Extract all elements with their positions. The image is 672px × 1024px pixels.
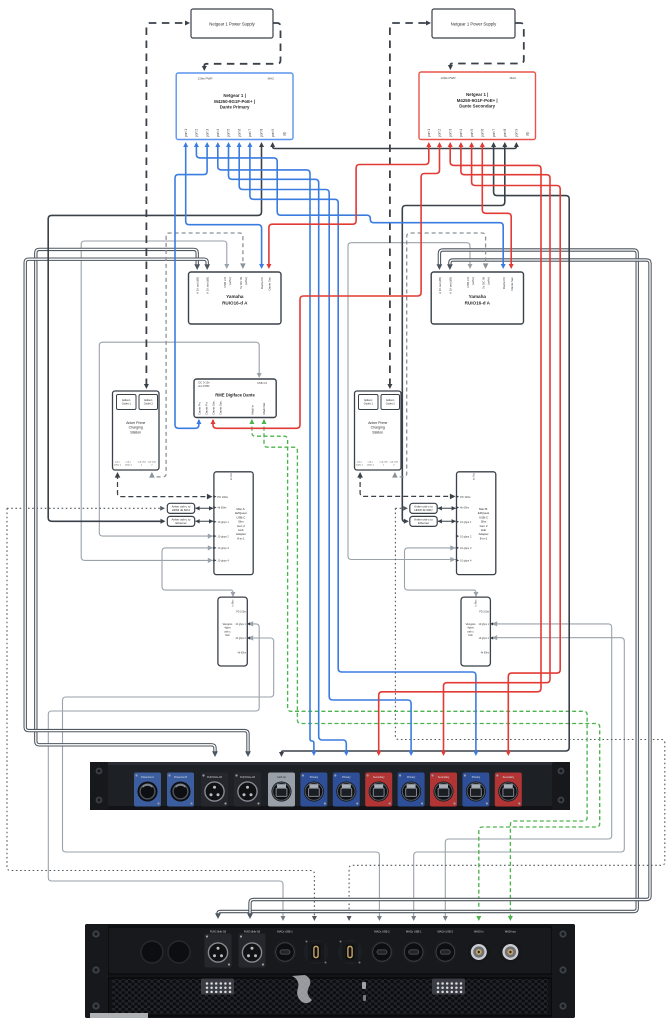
svg-text:RUIO16de-1B: RUIO16de-1B — [207, 776, 222, 779]
svg-text:Dante Sec.: Dante Sec. — [211, 400, 215, 414]
link ETH-R adapter to EZQuest-R 10gbps1 — [438, 520, 456, 522]
connector: patch XLR RUIO16de-1B #1 — [201, 773, 228, 807]
svg-text:M4250-9G1F-PoE+ |: M4250-9G1F-PoE+ | — [457, 98, 498, 103]
link ETH-L adapter to EZQuest 10gbps1 — [196, 520, 214, 522]
connector: patch Secondary #1 — [365, 773, 392, 807]
svg-text:RME Digiface Dante: RME Digiface Dante — [215, 393, 255, 398]
wire dante-pri: port3 to RME Dante Pri — [175, 144, 207, 428]
svg-text:MACs USB-2: MACs USB-2 — [374, 930, 390, 934]
svg-text:sfp: sfp — [283, 132, 287, 136]
svg-text:HDMI 4k 60hz: HDMI 4k 60hz — [172, 508, 191, 512]
wire hdmi dotted: to Anker HDMI adapter R — [395, 507, 406, 509]
box: RME Digiface Dante — [194, 379, 276, 418]
connector: rack MACs USB-1 — [274, 941, 297, 964]
svg-text:usb c: usb c — [467, 629, 474, 633]
connector: rack blank 2 — [168, 941, 190, 963]
wire usb: EZQuest 10gbps4 to Yamaha-L USB 2.0 — [81, 241, 227, 560]
svg-text:MACb USB-1: MACb USB-1 — [406, 930, 422, 934]
svg-text:Edison: Edison — [364, 398, 372, 402]
svg-text:port 3: port 3 — [205, 129, 209, 137]
svg-text:PD 100w: PD 100w — [460, 495, 471, 499]
svg-text:RUIO16db-1B: RUIO16db-1B — [244, 930, 261, 934]
svg-text:Madi Out: Madi Out — [262, 403, 266, 415]
svg-text:4k 60hz: 4k 60hz — [238, 652, 247, 655]
svg-text:100w 1: 100w 1 — [114, 464, 122, 466]
svg-text:130w PWR: 130w PWR — [197, 77, 213, 81]
wire MADI green: RME Madi In to rack MADI out — [252, 420, 587, 918]
svg-text:10 gbps 2: 10 gbps 2 — [478, 637, 489, 640]
svg-text:usb a/5v: usb a/5v — [148, 462, 157, 464]
svg-text:Powercon A: Powercon A — [141, 776, 154, 779]
power dashed: Anker-R to Netgear 1 Power Supply R — [390, 23, 427, 386]
power dashed: PSU-R to switch-R — [450, 23, 523, 67]
connector: patch Primary #2 — [333, 773, 360, 807]
wire usb: EZQuest-R 10gbps4 to Yamaha-R USB 2.0 — [348, 243, 470, 560]
svg-text:Netgear 1 Power Supply: Netgear 1 Power Supply — [451, 22, 497, 27]
svg-text:Primary: Primary — [472, 776, 481, 779]
connector: patch Cat6 etherCON — [268, 773, 295, 807]
wire dante-pri: port5 to patch Primary #2 — [229, 144, 347, 752]
svg-text:MADI out: MADI out — [505, 930, 516, 934]
svg-text:Dante Pri.: Dante Pri. — [204, 401, 208, 414]
svg-text:Edison: Edison — [122, 398, 130, 402]
svg-text:port 6: port 6 — [237, 129, 241, 137]
svg-text:Dante Secondary: Dante Secondary — [459, 104, 495, 109]
svg-text:port 3: port 3 — [448, 129, 452, 137]
connector: rack MACs USB-2 — [371, 941, 394, 964]
svg-text:Anker Prime: Anker Prime — [126, 421, 145, 425]
svg-text:Dante Pri: Dante Pri — [502, 277, 506, 289]
svg-text:Primary: Primary — [407, 776, 416, 779]
svg-text:port 8: port 8 — [260, 129, 264, 137]
svg-text:4k 60hz: 4k 60hz — [481, 652, 490, 655]
svg-text:A 16 out (dB): A 16 out (dB) — [438, 277, 442, 294]
svg-text:MACs USB-1: MACs USB-1 — [277, 930, 293, 934]
svg-text:port 2: port 2 — [438, 129, 442, 137]
svg-text:port 1: port 1 — [427, 129, 431, 137]
svg-text:PD 100w: PD 100w — [217, 495, 228, 499]
svg-text:100w 2: 100w 2 — [125, 464, 133, 466]
connector: rack HDMI 1 — [304, 940, 329, 965]
svg-text:Ethernet: Ethernet — [418, 521, 429, 525]
wire dante-sec: portR4 to patch Secondary #2 — [444, 144, 551, 752]
wire dante-sec: portR6 to Yamaha-R Dante Sec — [482, 144, 511, 266]
svg-text:Secondary: Secondary — [373, 776, 385, 779]
svg-text:Charging: Charging — [129, 426, 143, 430]
svg-text:RUIO16db-1B: RUIO16db-1B — [210, 930, 227, 934]
svg-text:usb-c: usb-c — [368, 462, 374, 464]
wire hdmi dotted: rack HDMI-2 run — [349, 508, 665, 918]
svg-text:M4250-9G1F-PoE+ |: M4250-9G1F-PoE+ | — [214, 99, 255, 104]
svg-text:4port: 4port — [224, 626, 230, 630]
svg-text:Station: Station — [130, 430, 141, 434]
svg-text:Dante Sec: Dante Sec — [268, 276, 272, 290]
svg-text:usb a/5v: usb a/5v — [380, 462, 389, 464]
svg-text:(wifi-i): (wifi-i) — [471, 277, 475, 285]
svg-text:Edison: Edison — [144, 398, 152, 402]
svg-text:hub: hub — [225, 633, 230, 637]
svg-text:hub: hub — [468, 633, 473, 637]
svg-text:port 5: port 5 — [470, 129, 474, 137]
svg-text:RUIO16-d A: RUIO16-d A — [465, 300, 491, 305]
connector: rack MACb USB-1 — [402, 941, 425, 964]
connector: rack MADI out — [499, 941, 521, 963]
connector: rack XLR RUIO16db-1B #1 — [205, 934, 232, 968]
wire dante-sec: portR1 to Yamaha-L Dante Sec — [269, 144, 429, 266]
wire dante-sec: portR5 to patch Secondary #3 — [472, 144, 561, 752]
cable A16: Yamaha-R out2 to rack XLR RUIO16db-1B #2 — [250, 260, 650, 916]
svg-text:Madi In: Madi In — [250, 405, 254, 415]
box: Anker usb-c adapter L Ethernet — [167, 516, 194, 526]
wire dante-sec: portR2 to RME Dante Sec — [213, 144, 440, 428]
wire usb: EZQuest-R 10gbps3 to Vengros-R hub — [405, 548, 477, 595]
svg-text:8-in-1: 8-in-1 — [237, 536, 245, 540]
svg-text:port 7: port 7 — [492, 129, 496, 137]
svg-text:HDMI 4k 60hz: HDMI 4k 60hz — [414, 508, 433, 512]
svg-text:port 4: port 4 — [459, 129, 463, 137]
link HDMI-L adapter to EZQuest 4k60 — [196, 507, 214, 509]
svg-text:Dante Pri: Dante Pri — [260, 277, 264, 289]
wire: switch-L port9 to switch-R port9 link — [273, 144, 517, 149]
svg-text:Secondary: Secondary — [438, 776, 450, 779]
svg-text:PD 100w: PD 100w — [479, 610, 489, 613]
link HDMI-R adapter to EZQuest-R 4k60 — [438, 507, 456, 509]
rack rear multipin connector left — [201, 979, 234, 995]
svg-text:usb c: usb c — [224, 629, 231, 633]
wire usb: Vengros-R port2 to rack MACb USB-1 — [414, 638, 625, 918]
wire dante-pri: port1 to Yamaha-L Dante Pri — [186, 144, 262, 266]
wire usb: EZQuest 10gbps2 to RME USB 3.0 — [99, 342, 259, 536]
connector: rack MADI In — [468, 941, 490, 963]
svg-text:Station: Station — [372, 430, 383, 434]
svg-text:usb-c: usb-c — [126, 462, 132, 464]
svg-text:MAC: MAC — [510, 76, 518, 80]
svg-text:10 gbps 4: 10 gbps 4 — [460, 559, 472, 563]
svg-text:sfp: sfp — [526, 132, 530, 136]
wire usb: Vengros-L port1 to rack MACs USB-1 — [48, 624, 283, 918]
box: Anker usb-c adapter R HDMI — [410, 503, 437, 513]
svg-text:MAC: MAC — [268, 77, 276, 81]
power dashed: Anker-R usb to Yamaha-R 5v DC IN — [395, 233, 486, 477]
svg-text:Vengros: Vengros — [466, 622, 477, 626]
svg-text:port 2: port 2 — [195, 129, 199, 137]
svg-text:to Mac: to Mac — [231, 599, 234, 607]
box: Yamaha RUIO16-d A (right) — [431, 272, 523, 324]
svg-text:Outlet 1: Outlet 1 — [364, 401, 374, 405]
box: Anker usb-c adapter L HDMI — [167, 503, 194, 513]
svg-text:10 gbps 3: 10 gbps 3 — [217, 546, 229, 550]
svg-text:Dante Sec.: Dante Sec. — [218, 400, 222, 414]
connector: patch Primary #4 — [462, 773, 489, 807]
svg-text:MADI In: MADI In — [474, 930, 484, 934]
power dashed: PSU-L to switch-L — [204, 23, 280, 68]
svg-text:USB 2.0: USB 2.0 — [466, 277, 470, 288]
connector: patch Secondary #3 — [495, 773, 522, 807]
wire MADI green: RME Madi Out to rack MADI In — [264, 420, 600, 918]
svg-text:4k 60hz: 4k 60hz — [217, 506, 227, 510]
power dashed: Anker-L usb-c1 to EZQuest-L PD 100w — [118, 474, 210, 497]
svg-text:Yamaha: Yamaha — [469, 294, 487, 299]
svg-text:130w PWR: 130w PWR — [440, 76, 456, 80]
svg-text:port 6: port 6 — [481, 129, 485, 137]
rack rear multipin connector right — [432, 979, 465, 995]
svg-text:4port: 4port — [467, 626, 473, 630]
svg-text:to Mac: to Mac — [473, 472, 476, 480]
svg-text:Dante Sec: Dante Sec — [510, 276, 514, 290]
svg-text:port 7: port 7 — [248, 129, 252, 137]
svg-text:Anker Prime: Anker Prime — [368, 421, 387, 425]
svg-text:port 5: port 5 — [227, 129, 231, 137]
svg-text:usb a/5v: usb a/5v — [138, 462, 147, 464]
wire dante-pri: port7 to patch Primary #4 — [250, 144, 476, 752]
box: Vengros 4port usb-c hub (left) — [218, 597, 247, 666]
svg-text:10 gbps 1: 10 gbps 1 — [235, 623, 246, 626]
svg-text:8-in-1: 8-in-1 — [480, 536, 488, 540]
connector: Powercon A — [134, 773, 161, 807]
svg-text:Edison: Edison — [386, 398, 394, 402]
box: Anker Prime Charging Station (right) — [355, 391, 402, 470]
box: Netgear 1 Power Supply (left) — [191, 9, 273, 38]
box: EZQuest hub Mac A — [214, 472, 253, 575]
svg-text:RUIO16de-1B: RUIO16de-1B — [240, 776, 255, 779]
svg-text:Netgear 1 |: Netgear 1 | — [223, 93, 245, 98]
svg-text:port 9: port 9 — [271, 129, 275, 137]
connector: patch Primary #1 — [300, 773, 327, 807]
wire usb: EZQuest-L 10gbps3 to Vengros-L hub — [162, 548, 233, 595]
svg-text:(wifi-i): (wifi-i) — [228, 277, 232, 285]
patch panel 1U rack — [90, 762, 570, 810]
svg-text:Charging: Charging — [371, 426, 385, 430]
svg-text:100w 2: 100w 2 — [367, 464, 375, 466]
svg-text:Ext PWR: Ext PWR — [199, 384, 210, 388]
connector: patch XLR RUIO16de-1B #2 — [234, 773, 261, 807]
svg-text:usb-c: usb-c — [357, 462, 363, 464]
svg-text:4k 60hz: 4k 60hz — [460, 506, 470, 510]
connector: patch Secondary #2 — [430, 773, 457, 807]
wire dante-sec: portR3 to patch Secondary #1 — [379, 144, 541, 752]
svg-text:10 gbps 1: 10 gbps 1 — [460, 520, 472, 524]
svg-text:Vengros: Vengros — [222, 622, 233, 626]
wire usb: Vengros-L port2 to rack MACs USB-2 — [63, 638, 380, 918]
svg-text:10 gbps 4: 10 gbps 4 — [217, 559, 229, 563]
wire: switch-R port8 to Anker usb-c Ethernet adapter R — [402, 144, 505, 521]
svg-text:Outlet 2: Outlet 2 — [144, 401, 154, 405]
power dashed: Anker-L to Netgear 1 Power Supply L — [146, 23, 186, 386]
svg-text:(wifi-i): (wifi-i) — [486, 277, 490, 285]
rack center cable blob — [292, 975, 312, 1003]
svg-text:port 1: port 1 — [184, 129, 188, 137]
svg-text:Dante Pri.: Dante Pri. — [197, 401, 201, 414]
svg-text:usb-c: usb-c — [115, 462, 121, 464]
svg-text:10 gbps 2: 10 gbps 2 — [460, 534, 472, 538]
svg-text:Secondary: Secondary — [503, 776, 515, 779]
svg-text:Powercon B: Powercon B — [174, 776, 187, 779]
box: Anker Prime Charging Station (left) — [113, 391, 160, 470]
svg-text:5v DC IN: 5v DC IN — [239, 277, 243, 289]
svg-text:Outlet 2: Outlet 2 — [386, 401, 396, 405]
svg-text:10 gbps 3: 10 gbps 3 — [460, 546, 472, 550]
wire: switch-R port7 to patch Cat6 etherCON — [282, 144, 570, 754]
connector: Powercon B — [167, 773, 194, 807]
connector: rack HDMI 2 — [338, 940, 363, 965]
cable A16: Yamaha-L out2 to patch XLR RUIO16de-1B #2 — [25, 259, 248, 754]
svg-text:Ethernet: Ethernet — [176, 521, 187, 525]
cable A16: Yamaha-L out1 to patch XLR RUIO16de-1B #1 — [36, 249, 215, 754]
box: EZQuest hub Mac B — [457, 472, 496, 575]
power dashed: Anker-L usb to Yamaha-L 5v DC IN — [152, 233, 243, 477]
svg-text:A 16 out (dB): A 16 out (dB) — [448, 277, 452, 294]
box: Netgear switch M4250 Dante Secondary — [419, 72, 536, 140]
wire dante-pri: port6 to patch Primary #3 — [239, 144, 411, 752]
svg-text:Dante Primary: Dante Primary — [220, 105, 250, 110]
wire dante-pri: port2 to Yamaha-R Dante Pri — [196, 144, 503, 266]
box: Netgear switch M4250 Dante Primary — [176, 73, 293, 140]
svg-text:to Mac: to Mac — [230, 472, 233, 480]
bottom 2U rack unit — [85, 924, 575, 1018]
svg-text:to Mac: to Mac — [475, 599, 478, 607]
svg-text:Yamaha: Yamaha — [226, 294, 244, 299]
box: Anker usb-c adapter R Ethernet — [410, 516, 437, 526]
svg-text:Cat6 spr: Cat6 spr — [277, 776, 286, 779]
svg-text:port 9: port 9 — [515, 129, 519, 137]
svg-text:10 gbps 1: 10 gbps 1 — [217, 520, 229, 524]
svg-text:Outlet 1: Outlet 1 — [122, 401, 132, 405]
svg-text:Primary: Primary — [310, 776, 319, 779]
wire usb: Vengros-R port1 to rack MACb USB-2 — [445, 624, 611, 918]
wire hdmi dotted: rack HDMI-1 run — [7, 508, 314, 918]
svg-text:MACb USB-2: MACb USB-2 — [438, 930, 454, 934]
svg-text:5v DC IN: 5v DC IN — [481, 277, 485, 289]
svg-text:USB 3.0: USB 3.0 — [257, 381, 268, 385]
svg-text:port 8: port 8 — [503, 129, 507, 137]
svg-text:DC 9-15v: DC 9-15v — [198, 381, 210, 385]
svg-text:RUIO16-d A: RUIO16-d A — [222, 300, 248, 305]
svg-text:Netgear 1 Power Supply: Netgear 1 Power Supply — [209, 22, 255, 27]
box: Yamaha RUIO16-d A (left) — [189, 272, 282, 324]
svg-text:A 16 out (dB): A 16 out (dB) — [206, 277, 210, 294]
svg-text:10 gbps 2: 10 gbps 2 — [235, 637, 246, 640]
svg-text:PD 100w: PD 100w — [236, 610, 246, 613]
box: Vengros 4port usb-c hub (right) — [461, 597, 490, 666]
wire hdmi dotted: to Anker HDMI adapter L — [7, 507, 162, 509]
connector: patch Primary #3 — [398, 773, 425, 807]
box: Netgear 1 Power Supply (right) — [432, 9, 515, 38]
svg-text:10 gbps 1: 10 gbps 1 — [478, 623, 489, 626]
connector: rack XLR RUIO16db-1B #2 — [239, 934, 266, 968]
svg-text:usb a/5v: usb a/5v — [390, 462, 399, 464]
svg-text:USB 2.0: USB 2.0 — [223, 277, 227, 288]
svg-text:10 gbps 2: 10 gbps 2 — [217, 534, 229, 538]
connector: rack blank 1 — [141, 941, 163, 963]
wire dante-pri: port4 to patch Primary #1 — [218, 144, 314, 752]
svg-text:Primary: Primary — [342, 776, 351, 779]
svg-text:(wifi-i): (wifi-i) — [244, 277, 248, 285]
svg-text:Netgear 1 |: Netgear 1 | — [466, 92, 488, 97]
cable A16: Yamaha-R out1 to rack XLR RUIO16db-1B #1 — [218, 250, 637, 916]
svg-text:port 4: port 4 — [216, 129, 220, 137]
power dashed: Anker-R usb-c1 to EZQuest-R PD 100w — [360, 474, 452, 496]
svg-text:A 16 out (dB): A 16 out (dB) — [196, 277, 200, 294]
wire: switch-L port8 to Anker usb-c Ethernet adapter L — [48, 144, 261, 521]
svg-text:100w 1: 100w 1 — [356, 464, 364, 466]
connector: rack MACb USB-2 — [434, 941, 457, 964]
